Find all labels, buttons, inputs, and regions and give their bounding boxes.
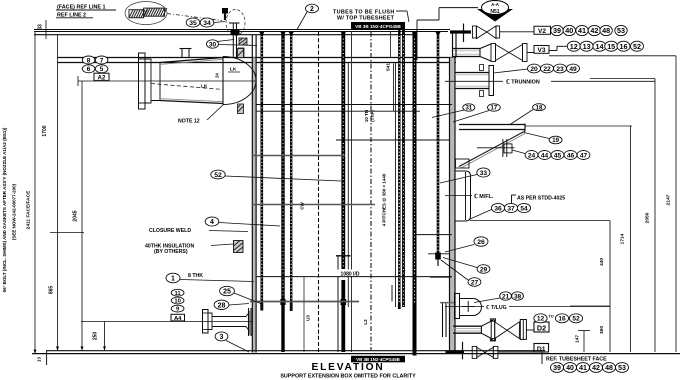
svg-text:18: 18: [536, 105, 543, 111]
reducer cone V3: [480, 44, 491, 61]
svg-text:31: 31: [465, 106, 472, 112]
subtitle: [280, 373, 416, 379]
label L2: [363, 319, 368, 325]
svg-text:2147: 2147: [666, 194, 672, 205]
svg-text:LK: LK: [201, 84, 208, 90]
insulation patch: [234, 241, 244, 253]
svg-text:ELEVATION: ELEVATION: [312, 362, 385, 373]
balloons 12 TO 16 52: [534, 314, 583, 323]
svg-text:16: 16: [558, 316, 566, 323]
rod line: [337, 256, 339, 352]
svg-text:TO: TO: [549, 315, 554, 319]
tag box A2: [94, 73, 109, 81]
svg-text:52: 52: [572, 316, 580, 323]
dim base ticks: [34, 347, 107, 366]
label LK lower: [201, 84, 208, 90]
balloon 4: [205, 217, 280, 226]
svg-text:(TYP): (TYP): [370, 110, 375, 122]
nozzle A2 dashed axis: [151, 84, 223, 90]
svg-text:D1: D1: [537, 346, 546, 353]
bottom black label band: [351, 356, 405, 363]
lifting lug: [455, 294, 482, 319]
dim line 2147: [666, 56, 677, 352]
svg-text:24: 24: [528, 152, 536, 159]
svg-text:2: 2: [310, 6, 314, 13]
top tubesheet black label band: [351, 22, 405, 30]
svg-text:REF. TUBESHEET FACE: REF. TUBESHEET FACE: [546, 356, 607, 362]
svg-text:19: 19: [552, 138, 559, 144]
svg-text:12: 12: [570, 42, 578, 51]
balloon 17: [453, 104, 500, 122]
svg-text:47: 47: [580, 152, 588, 159]
stub line right e: [428, 253, 449, 255]
svg-text:23: 23: [556, 66, 564, 73]
svg-text:CLOSURE WELD: CLOSURE WELD: [149, 228, 191, 234]
svg-text:12: 12: [537, 316, 545, 323]
svg-text:56° BOLT (INCL. SHIMS) AND GAS: 56° BOLT (INCL. SHIMS) AND GASKETS AFTER…: [2, 127, 7, 292]
note tubes flush: [333, 10, 409, 23]
svg-text:53: 53: [617, 26, 625, 35]
svg-text:N51: N51: [490, 9, 499, 15]
svg-text:1080 I/D: 1080 I/D: [341, 272, 360, 278]
small coupling on tubesheet: [180, 49, 192, 58]
svg-text:ℂ TRUNNION: ℂ TRUNNION: [506, 80, 540, 86]
svg-text:22: 22: [543, 66, 551, 73]
svg-text:CW: CW: [300, 202, 305, 210]
svg-text:52: 52: [633, 42, 641, 51]
note 4 pitches: [382, 173, 387, 226]
support rod 2: [252, 204, 375, 206]
dim line 2411: [26, 31, 36, 354]
clamp bolt detail: [477, 139, 515, 157]
balloon 1 with 8 THK: [166, 273, 254, 283]
channel walls above tubesheet: [252, 33, 456, 58]
balloon 26: [445, 237, 488, 252]
svg-text:147: 147: [575, 335, 581, 343]
balloons 12-52 row V3: [567, 41, 643, 51]
tag box D2: [534, 322, 549, 332]
nozzle stub V2: [450, 24, 471, 43]
svg-text:33: 33: [480, 170, 488, 177]
svg-text:250: 250: [93, 332, 99, 341]
dim line 440/360: [570, 221, 610, 353]
balloons 21 38: [474, 292, 523, 303]
balloon 31: [432, 104, 475, 118]
dim 147: [575, 331, 591, 353]
tube T5 dotted: [398, 29, 400, 309]
svg-text:2045: 2045: [73, 210, 79, 221]
tag box D1: [534, 344, 549, 353]
svg-text:40: 40: [566, 365, 574, 372]
support rod 1: [252, 155, 345, 157]
balloons 36 37 54: [469, 203, 531, 219]
balloons 24 44 45 46 47: [512, 150, 590, 160]
tubesheet line to dim 2147: [549, 55, 676, 57]
svg-text:42: 42: [590, 26, 598, 35]
nozzle D1 stub cross: [446, 342, 465, 360]
svg-text:W/ TOP TUBESHEET: W/ TOP TUBESHEET: [337, 16, 395, 22]
baffle a: [256, 104, 452, 106]
tube T1 dotted: [260, 32, 263, 311]
svg-text:29: 29: [480, 266, 488, 273]
tube T3 dotted: [290, 32, 292, 312]
label U3: [306, 315, 311, 321]
svg-text:52: 52: [214, 172, 222, 179]
dim line 2050: [590, 79, 655, 353]
svg-text:V3: V3: [538, 47, 546, 54]
svg-text:13: 13: [583, 42, 591, 51]
dim line 1714: [620, 126, 631, 353]
svg-text:24: 24: [215, 73, 220, 78]
svg-text:4 PITCHES @ 360 = 1440: 4 PITCHES @ 360 = 1440: [382, 173, 387, 226]
box inner wall left: [249, 308, 252, 336]
weld detail ellipse: [125, 2, 167, 25]
tube T4 solid: [341, 32, 347, 353]
svg-text:11: 11: [175, 291, 182, 297]
tag box V3: [534, 46, 549, 55]
dashed ellipse joint: [226, 10, 245, 36]
balloons 11 10 9: [171, 289, 184, 312]
note as per stdd: [512, 195, 566, 203]
valve D2: [490, 319, 534, 341]
svg-text:41: 41: [578, 26, 586, 35]
balloons 8 7 6 5: [82, 56, 108, 73]
svg-text:42: 42: [592, 365, 600, 372]
centerline M/FL: [445, 194, 494, 200]
svg-text:44: 44: [541, 152, 549, 159]
nozzle neck V3: [452, 49, 480, 57]
balloon 19: [524, 133, 562, 145]
channel step lines top right: [417, 8, 439, 60]
svg-text:41: 41: [579, 365, 587, 372]
svg-text:48: 48: [605, 365, 613, 372]
label REF LINE 1: [56, 5, 116, 11]
balloon 3: [215, 332, 249, 352]
line at box left: [351, 32, 353, 353]
valve D1: [472, 346, 534, 358]
note 12: [178, 104, 224, 125]
valve V3: [491, 44, 534, 62]
svg-text:48: 48: [602, 26, 610, 35]
svg-text:10: 10: [174, 299, 180, 305]
box inner wall right: [443, 303, 447, 337]
svg-text:4: 4: [210, 219, 214, 226]
tube T7 dotted: [435, 31, 441, 266]
closure weld note: [149, 228, 248, 234]
svg-text:27: 27: [471, 279, 479, 286]
svg-text:16: 16: [620, 42, 628, 51]
label CW: [300, 202, 305, 210]
dim 33: [38, 20, 47, 39]
wall gusset plate: [456, 159, 470, 168]
balloon 52 mid: [211, 170, 341, 181]
insulation note: [145, 244, 233, 256]
svg-text:17: 17: [491, 106, 498, 112]
svg-text:14: 14: [596, 42, 604, 51]
balloon 27: [441, 260, 481, 286]
ref line 1 (face): [34, 30, 450, 32]
svg-text:360: 360: [599, 326, 605, 334]
left shell wall: [252, 58, 256, 353]
svg-text:AS PER STDD-4025: AS PER STDD-4025: [517, 196, 565, 202]
tag box A4: [171, 314, 185, 322]
stub line right d: [415, 234, 452, 236]
section marker A-A: [439, 1, 513, 22]
dim line 250: [93, 322, 105, 351]
svg-text:(BY OTHERS): (BY OTHERS): [154, 249, 188, 255]
label LK upper: [228, 67, 240, 73]
svg-text:1700: 1700: [42, 125, 48, 136]
trunnion centerline: [445, 80, 655, 86]
svg-text:45: 45: [554, 152, 562, 159]
svg-text:(SEE NOW-242-00077-200): (SEE NOW-242-00077-200): [12, 183, 17, 240]
weld flag: [222, 8, 228, 20]
vertical pipe: [229, 23, 240, 58]
svg-text:26: 26: [477, 239, 485, 246]
svg-text:D2: D2: [537, 323, 546, 332]
balloon 33: [440, 168, 490, 183]
nozzle A1 dome: [223, 57, 256, 105]
note 10 TH TYP: [364, 110, 375, 123]
nozzle D2 neck: [453, 320, 493, 339]
svg-text:U3: U3: [306, 315, 311, 321]
svg-text:1: 1: [171, 276, 175, 283]
balloon 30: [207, 40, 258, 49]
tube T5 edge: [395, 63, 397, 307]
shelf brace diagonal: [459, 131, 525, 168]
svg-text:A-A: A-A: [491, 2, 500, 7]
nozzle A1 flange: [139, 53, 152, 109]
svg-text:3: 3: [220, 334, 224, 341]
balloons 39-53 row V2: [551, 25, 627, 35]
balloon 18: [510, 104, 545, 125]
svg-text:37: 37: [507, 205, 515, 212]
rotated note inner: [12, 183, 17, 240]
ref tubesheet face note: [542, 352, 607, 364]
manway pad M/FL: [456, 171, 471, 221]
svg-text:40: 40: [565, 26, 573, 35]
line at pad bottom: [470, 220, 610, 222]
valve V2: [473, 26, 535, 39]
svg-text:30: 30: [209, 41, 217, 48]
balloons 20 22 23 49: [494, 64, 580, 73]
tube T5b solid: [402, 29, 405, 307]
label REF LINE 2: [56, 12, 93, 18]
tube T2 solid: [280, 32, 285, 353]
leader dash-dot to detail: [167, 14, 222, 21]
svg-text:ℂ T/LUG: ℂ T/LUG: [486, 305, 507, 311]
baffle b: [256, 110, 420, 112]
svg-text:36: 36: [494, 205, 502, 212]
svg-text:ℂ M/FL.: ℂ M/FL.: [474, 194, 494, 200]
svg-text:21: 21: [502, 293, 510, 300]
svg-text:5: 5: [100, 66, 104, 73]
bottom tube support 2: [440, 302, 456, 304]
stub line right f: [430, 276, 451, 278]
dim 1080 I/D: [256, 270, 452, 278]
svg-text:15: 15: [607, 42, 615, 51]
svg-text:A2: A2: [98, 75, 106, 82]
nozzle A4 neck: [212, 311, 249, 335]
gusset bottom: [238, 104, 244, 114]
svg-text:49: 49: [569, 66, 577, 73]
vessel centerline dash-dot: [370, 32, 372, 350]
thin rod line U3: [303, 277, 305, 352]
svg-text:33: 33: [38, 24, 44, 30]
title ELEVATION: [312, 362, 385, 373]
gusset hatch at pipe: [238, 38, 247, 57]
svg-text:440: 440: [599, 258, 605, 266]
ref line 2: [34, 34, 417, 36]
balloon 28: [214, 300, 249, 309]
svg-text:6: 6: [87, 66, 91, 73]
svg-text:L2: L2: [363, 319, 368, 325]
lug centerline: [445, 305, 610, 311]
balloons bottom row: [551, 363, 629, 373]
svg-text:10 TH: 10 TH: [364, 110, 369, 122]
bottom tube support 1: [250, 285, 392, 302]
svg-text:VB 3B 1N2-4CPG45B: VB 3B 1N2-4CPG45B: [355, 24, 401, 29]
svg-text:7: 7: [100, 57, 104, 64]
svg-text:V2: V2: [538, 28, 546, 35]
svg-text:39: 39: [553, 26, 561, 35]
tag box V2: [534, 26, 551, 35]
svg-text:38: 38: [514, 293, 522, 300]
trunnion: [455, 65, 494, 97]
balloon 25: [220, 286, 262, 304]
tube T6 solid: [413, 32, 417, 356]
baffle c right: [336, 139, 450, 141]
svg-text:35: 35: [189, 20, 197, 27]
label 24 small: [215, 73, 220, 78]
tube T4 edge: [347, 63, 349, 307]
svg-text:1714: 1714: [620, 233, 626, 244]
svg-text:28: 28: [218, 302, 226, 309]
svg-text:2411 FACE/FACE: 2411 FACE/FACE: [26, 190, 32, 229]
support shelf plate: [459, 124, 632, 132]
balloon 2: [297, 4, 319, 29]
svg-text:8 THK: 8 THK: [188, 273, 203, 279]
top tubesheet: [58, 58, 456, 63]
step leader to balloons: [549, 46, 567, 50]
svg-text:20: 20: [530, 66, 538, 73]
rod cap T4: [336, 255, 351, 257]
svg-text:25: 25: [223, 289, 231, 296]
svg-text:34: 34: [203, 20, 211, 27]
svg-text:2050: 2050: [645, 212, 651, 223]
stub line 390: [390, 32, 392, 58]
svg-text:SUPPORT EXTENSION BOX OMITTED: SUPPORT EXTENSION BOX OMITTED FOR CLARIT…: [280, 373, 416, 379]
dim line 1700/865: [42, 35, 84, 351]
tube guide line: [318, 32, 320, 352]
svg-text:LK: LK: [230, 67, 237, 73]
rotated note outer: [2, 127, 7, 292]
nozzle A4 centerline: [81, 321, 252, 323]
nozzle A4 flange: [203, 310, 213, 334]
right shell wall: [450, 58, 456, 353]
svg-text:54: 54: [520, 205, 528, 212]
bottom tubesheet face: [32, 351, 680, 354]
svg-text:39: 39: [553, 365, 561, 372]
nozzle A1 cone: [151, 58, 223, 104]
balloon 29: [443, 258, 490, 274]
svg-text:13: 13: [37, 357, 42, 363]
gusset top: [238, 49, 244, 58]
tube top caps: [259, 32, 441, 37]
nozzle A1 centerline: [78, 76, 256, 86]
balloons 35 34: [186, 18, 225, 27]
svg-text:46: 46: [567, 152, 575, 159]
dim line 2045: [73, 81, 83, 351]
svg-text:865: 865: [49, 286, 55, 295]
dim 541: [386, 63, 394, 111]
svg-text:53: 53: [618, 365, 626, 372]
svg-text:541: 541: [386, 63, 392, 71]
svg-text:NOTE 12: NOTE 12: [178, 119, 200, 125]
svg-text:8: 8: [87, 57, 91, 64]
